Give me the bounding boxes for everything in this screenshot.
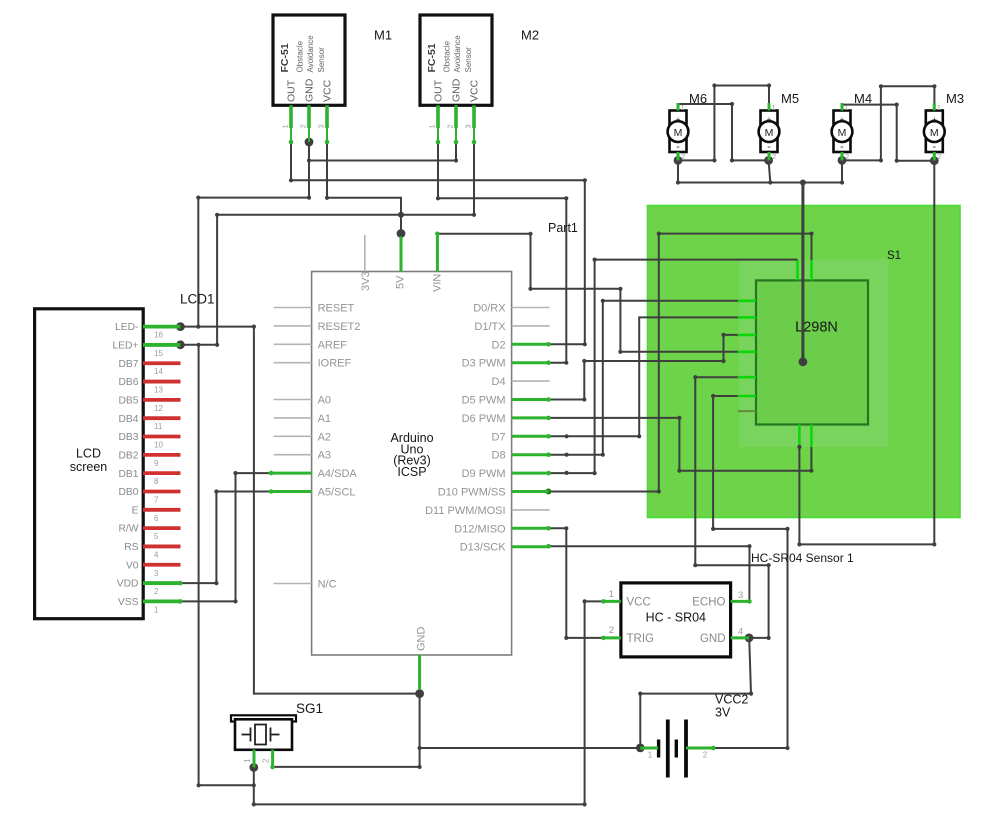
HC-SR04 pin numbers	[609, 589, 744, 638]
svg-text:9: 9	[154, 459, 159, 468]
M5 rotor circle	[759, 121, 780, 142]
wire M2 VCC to 5V bus	[217, 142, 474, 345]
svg-text:1: 1	[609, 589, 614, 600]
svg-text:D1/TX: D1/TX	[474, 321, 506, 333]
wire D8 to L298N pin1	[549, 301, 738, 455]
wire end dot D10	[545, 489, 551, 495]
svg-text:+: +	[676, 114, 681, 124]
svg-text:D0/RX: D0/RX	[473, 303, 506, 315]
arduino unused left pin stubs	[274, 308, 312, 584]
arduino right pin labels	[425, 303, 506, 554]
wire M1 VCC to 5V	[327, 142, 401, 234]
svg-text:VCC2: VCC2	[715, 693, 748, 707]
svg-text:M5: M5	[781, 91, 799, 106]
M3 rotor circle	[924, 121, 945, 142]
svg-text:LED+: LED+	[112, 341, 138, 352]
svg-text:1: 1	[281, 124, 290, 128]
svg-text:VSS: VSS	[118, 597, 139, 608]
svg-text:A0: A0	[318, 395, 331, 407]
M4 pin stubs	[841, 103, 844, 160]
svg-text:RS: RS	[124, 542, 138, 553]
M6 plus minus	[676, 114, 681, 153]
module L298N body	[756, 280, 868, 424]
svg-text:1: 1	[937, 103, 941, 112]
LCD pin labels	[112, 322, 138, 608]
svg-text:D9 PWM: D9 PWM	[462, 468, 506, 480]
M2 silk text	[426, 35, 473, 73]
svg-text:D7: D7	[492, 431, 506, 443]
wire speaker pin1 riser	[253, 767, 255, 804]
svg-text:13: 13	[154, 386, 163, 395]
wire LCD LED- to GND bus	[180, 326, 254, 328]
wire D5 to L298N pin3	[549, 335, 738, 400]
wire arduino GND down	[419, 694, 421, 767]
svg-text:2: 2	[262, 758, 271, 763]
svg-text:DB7: DB7	[118, 359, 138, 370]
svg-text:D4: D4	[492, 376, 506, 388]
svg-text:DB5: DB5	[118, 395, 138, 406]
wire M1 GND to M2 GND	[309, 142, 456, 161]
wire D7 to L298N pin2	[549, 317, 738, 436]
svg-text:GND: GND	[304, 78, 316, 102]
M1 silk text	[279, 35, 326, 73]
M5 pin stubs	[768, 103, 771, 160]
arduino 3V3 stub	[364, 235, 366, 272]
svg-text:1: 1	[648, 751, 653, 760]
junction dots (large)	[176, 138, 939, 772]
svg-text:4: 4	[738, 627, 743, 638]
speaker SG1 top bar	[231, 715, 296, 721]
LCD screen body	[35, 309, 144, 619]
obstacle sensor M1 (FC-51)	[273, 15, 345, 105]
svg-text:DB1: DB1	[118, 469, 138, 480]
svg-text:D11 PWM/MOSI: D11 PWM/MOSI	[425, 505, 505, 517]
wire bottom 5V bus to HC-SR04 VCC	[254, 601, 604, 804]
svg-text:LED-: LED-	[115, 322, 138, 333]
svg-text:1: 1	[243, 758, 252, 763]
svg-text:SG1: SG1	[296, 701, 323, 716]
M1 pin numbers	[281, 124, 326, 128]
M6 pin stubs	[677, 103, 680, 160]
wire end dots (green)	[178, 140, 752, 770]
wire D13 to HC-SR04 ECHO	[549, 546, 750, 601]
svg-text:Obstacle: Obstacle	[296, 40, 305, 72]
M6 rotor circle	[668, 121, 689, 142]
LCD title	[70, 447, 108, 475]
svg-text:IOREF: IOREF	[318, 358, 352, 370]
svg-text:+: +	[932, 114, 937, 124]
label VCC2 3V	[715, 693, 748, 720]
svg-text:1: 1	[772, 103, 776, 112]
wire LCD LED+ junction	[180, 344, 217, 346]
svg-text:2: 2	[446, 124, 455, 128]
svg-text:R/W: R/W	[118, 524, 138, 535]
svg-text:D10 PWM/SS: D10 PWM/SS	[438, 487, 506, 499]
svg-text:5V: 5V	[395, 275, 407, 289]
svg-text:2: 2	[937, 152, 941, 161]
svg-text:V0: V0	[126, 560, 139, 571]
M4 plus minus	[840, 114, 845, 153]
svg-text:DB4: DB4	[118, 414, 138, 425]
svg-text:VCC: VCC	[469, 79, 481, 102]
svg-text:3V: 3V	[715, 706, 731, 720]
wire GND bus left	[198, 198, 309, 327]
M4 rotor circle	[832, 121, 853, 142]
svg-text:2: 2	[772, 152, 776, 161]
svg-text:A1: A1	[318, 413, 331, 425]
svg-text:AREF: AREF	[318, 339, 348, 351]
svg-text:1: 1	[681, 103, 685, 112]
wire M6 plus to M5 minus	[678, 104, 769, 160]
wire M6 minus to M5 plus	[678, 86, 769, 161]
svg-text:DB0: DB0	[118, 487, 138, 498]
svg-text:2: 2	[154, 587, 159, 596]
wire A5 to LCD VDD	[180, 492, 271, 584]
wire VIN to L298N pin4	[437, 234, 737, 352]
wire GND to speaker pin2	[273, 766, 420, 768]
svg-text:7: 7	[154, 495, 159, 504]
svg-text:2: 2	[703, 751, 708, 760]
svg-text:A4/SDA: A4/SDA	[318, 468, 358, 480]
svg-text:HC - SR04: HC - SR04	[646, 611, 706, 625]
speaker SG1 body	[235, 719, 292, 750]
arduino A4 A5 pin stubs	[271, 473, 312, 491]
arduino 5V stub	[400, 237, 403, 272]
wire D9 to L298N top pin A	[549, 260, 798, 474]
svg-text:screen: screen	[70, 460, 108, 474]
M2 pin stubs	[438, 105, 474, 142]
battery VCC2 cells	[659, 720, 686, 778]
bend dots (small)	[196, 83, 936, 806]
svg-text:1: 1	[845, 103, 849, 112]
svg-text:TRIG: TRIG	[627, 633, 655, 645]
wire GND bus down to arduino GND	[254, 327, 420, 694]
svg-text:3: 3	[464, 124, 473, 128]
svg-text:OUT: OUT	[433, 79, 445, 102]
svg-text:M: M	[674, 127, 683, 139]
svg-text:10: 10	[154, 441, 163, 450]
svg-text:D3 PWM: D3 PWM	[462, 358, 506, 370]
svg-text:M6: M6	[689, 91, 707, 106]
M5 plus minus	[767, 114, 772, 153]
svg-text:M: M	[930, 127, 939, 139]
svg-text:3: 3	[154, 569, 159, 578]
breakout area S1 (green region)	[648, 206, 961, 518]
svg-text:DB6: DB6	[118, 377, 138, 388]
svg-text:3: 3	[738, 590, 743, 601]
svg-text:FC-51: FC-51	[426, 43, 438, 72]
junction dot 5V bus	[398, 212, 404, 218]
wire motor minus bus	[678, 160, 842, 182]
svg-text:Sensor: Sensor	[317, 47, 326, 73]
wire M2 OUT to D3	[438, 142, 566, 363]
wire motor bus into L298N (thick)	[801, 183, 804, 362]
svg-text:M2: M2	[521, 28, 539, 43]
M3 pin numbers	[937, 103, 942, 161]
svg-text:1: 1	[428, 124, 437, 128]
svg-text:RESET: RESET	[318, 303, 355, 315]
svg-text:2: 2	[845, 152, 849, 161]
svg-text:Obstacle: Obstacle	[443, 40, 452, 72]
svg-text:D6 PWM: D6 PWM	[462, 413, 506, 425]
svg-text:M1: M1	[374, 28, 392, 43]
svg-text:D2: D2	[492, 339, 506, 351]
svg-text:6: 6	[154, 514, 159, 523]
svg-text:GND: GND	[700, 633, 726, 645]
wire L298N bottom pin A to M3 minus	[799, 161, 934, 545]
wire D10 to L298N top pin B	[548, 234, 811, 492]
SG1 pin numbers	[243, 758, 271, 763]
svg-text:ECHO: ECHO	[692, 597, 725, 609]
L298N bottom pin stubs	[798, 425, 801, 448]
svg-text:N/C: N/C	[318, 579, 337, 591]
L298N top pin stubs	[796, 260, 799, 281]
svg-text:D8: D8	[492, 450, 506, 462]
svg-text:-: -	[932, 141, 936, 153]
wire M4 minus to M3 plus	[842, 86, 934, 160]
svg-text:1: 1	[154, 605, 159, 614]
svg-text:Part1: Part1	[548, 221, 578, 235]
arduino GND stub	[418, 655, 421, 690]
LCD pin numbers	[154, 331, 163, 615]
battery pin numbers	[648, 751, 708, 760]
svg-text:14: 14	[154, 367, 163, 376]
LCD connected pin stubs (green)	[143, 327, 180, 602]
svg-text:VCC: VCC	[627, 597, 651, 609]
svg-text:DB2: DB2	[118, 450, 138, 461]
wire D6 to L298N bottom pin B	[549, 418, 812, 471]
wire M5 minus to bus	[769, 160, 771, 182]
svg-text:VCC: VCC	[322, 79, 334, 102]
arduino unused right pin stubs	[512, 308, 550, 510]
M4 pin numbers	[845, 103, 850, 161]
arduino connected right pin stubs	[512, 344, 549, 546]
M5 pin numbers	[772, 103, 777, 161]
svg-text:LCD1: LCD1	[180, 292, 215, 307]
battery pin stubs	[640, 747, 713, 750]
svg-text:LCD: LCD	[76, 447, 101, 461]
wire M1 GND down	[308, 142, 310, 198]
svg-text:ICSP: ICSP	[397, 465, 426, 479]
svg-text:A2: A2	[318, 431, 331, 443]
svg-text:RESET2: RESET2	[318, 321, 361, 333]
obstacle sensor M2 (FC-51)	[420, 15, 492, 105]
wire D12 to HC-SR04 TRIG	[549, 528, 604, 638]
M2 pin labels	[433, 78, 481, 102]
arduino Uno body	[312, 272, 512, 656]
M3 plus minus	[932, 114, 937, 153]
svg-text:D12/MISO: D12/MISO	[454, 523, 506, 535]
svg-text:A5/SCL: A5/SCL	[318, 487, 356, 499]
svg-text:5: 5	[154, 532, 159, 541]
svg-text:12: 12	[154, 404, 163, 413]
svg-text:M: M	[838, 127, 847, 139]
motor M5 body	[761, 111, 778, 153]
svg-text:VIN: VIN	[431, 274, 443, 292]
svg-text:8: 8	[154, 477, 159, 486]
svg-text:+: +	[840, 114, 845, 124]
svg-text:E: E	[132, 505, 139, 516]
wire HC-SR04 GND to L298N pin5	[695, 377, 768, 638]
svg-text:FC-51: FC-51	[279, 43, 291, 72]
svg-text:11: 11	[154, 422, 163, 431]
svg-text:3: 3	[317, 124, 326, 128]
motor M6 body	[670, 111, 687, 153]
arduino left pin labels	[318, 303, 361, 591]
svg-text:GND: GND	[451, 78, 463, 102]
svg-text:15: 15	[154, 349, 163, 358]
wire LED+ down left 5V riser	[199, 345, 254, 786]
svg-text:HC-SR04 Sensor 1: HC-SR04 Sensor 1	[751, 551, 854, 565]
bus junction dot	[800, 180, 806, 186]
wire GND to battery minus	[420, 747, 641, 749]
arduino title text	[390, 431, 433, 479]
LCD unconnected pin stubs (red)	[143, 363, 181, 565]
svg-text:2: 2	[609, 625, 614, 636]
HC-SR04 pin stubs	[603, 601, 749, 638]
SG1 crystal symbol	[242, 725, 280, 745]
motor M4 body	[834, 111, 851, 153]
svg-text:16: 16	[154, 331, 163, 340]
M3 pin stubs	[933, 103, 936, 160]
svg-text:Avoidance: Avoidance	[453, 35, 462, 73]
svg-text:S1: S1	[887, 250, 901, 262]
svg-text:2: 2	[681, 152, 685, 161]
svg-text:3V3: 3V3	[360, 271, 372, 291]
svg-text:D5 PWM: D5 PWM	[462, 395, 506, 407]
svg-text:Avoidance: Avoidance	[306, 35, 315, 73]
svg-text:D13/SCK: D13/SCK	[460, 542, 507, 554]
svg-text:2: 2	[299, 124, 308, 128]
svg-text:-: -	[676, 141, 680, 153]
L298N unconnected left pin stub	[738, 410, 756, 412]
wire L298N pin6 to battery plus	[713, 396, 787, 748]
M2 pin numbers	[428, 124, 473, 128]
svg-text:-: -	[840, 141, 844, 153]
wire M3 minus to M4 plus	[842, 105, 934, 161]
arduino top pin labels	[360, 271, 444, 292]
M1 pin labels	[286, 78, 334, 102]
wire A4 to LCD VSS	[180, 473, 271, 601]
svg-text:GND: GND	[415, 627, 427, 652]
L298N left pin stubs 1-6	[738, 301, 756, 396]
svg-text:Sensor: Sensor	[464, 47, 473, 73]
svg-text:VDD: VDD	[117, 579, 139, 590]
svg-text:-: -	[767, 141, 771, 153]
svg-text:OUT: OUT	[286, 79, 298, 102]
svg-text:DB3: DB3	[118, 432, 138, 443]
svg-text:A3: A3	[318, 450, 331, 462]
SG1 pin stubs	[254, 750, 273, 768]
M6 pin numbers	[681, 103, 686, 161]
arduino VIN stub	[436, 234, 439, 272]
svg-text:+: +	[767, 114, 772, 124]
wire M1 OUT to D2	[291, 142, 585, 344]
svg-text:M4: M4	[854, 91, 872, 106]
svg-text:4: 4	[154, 550, 159, 559]
svg-text:M: M	[765, 127, 774, 139]
sensor HC-SR04 body	[621, 583, 731, 657]
svg-text:M3: M3	[946, 91, 964, 106]
selection highlight around L298N	[739, 260, 889, 448]
wire battery to HC-SR04 GND	[640, 638, 751, 748]
motor M3 body	[926, 111, 943, 153]
HC-SR04 pin labels	[627, 597, 726, 646]
M1 pin stubs	[291, 105, 327, 142]
